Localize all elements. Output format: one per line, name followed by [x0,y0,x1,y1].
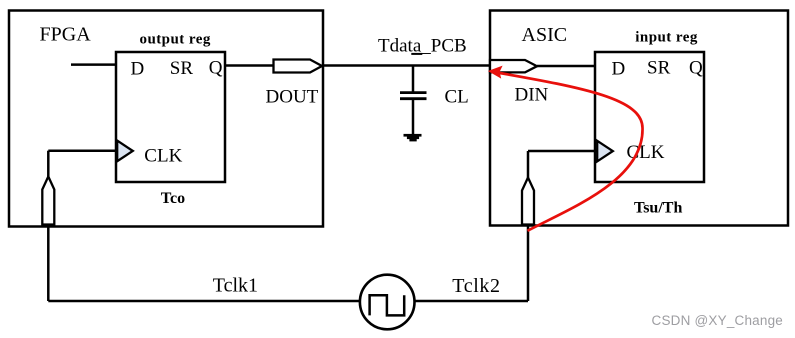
FPGA box [9,11,323,227]
svg-text:Tclk2: Tclk2 [452,275,500,297]
svg-text:D: D [612,58,626,79]
capacitor CL stem bottom [412,100,415,135]
wire ASIC clk vertical lower [527,225,530,302]
clock edge triangle U1 [117,141,133,162]
ASIC box [490,11,788,226]
svg-text:Tdata_PCB: Tdata_PCB [378,35,467,56]
wire D input stub U1 [71,63,116,66]
flip-flop U1 output reg [116,52,225,182]
wire ASIC clk vertical upper [527,151,530,178]
ground [404,134,422,142]
wire Tclk1 horizontal [48,300,359,303]
svg-text:Q: Q [209,58,223,79]
wire ASIC clk horizontal [528,150,597,153]
clock edge triangle U2 [597,141,613,162]
capacitor CL top plate [400,91,427,94]
wire DIN to D input U2 [537,65,595,68]
wire Tdata_PCB net [322,64,490,67]
svg-text:CSDN @XY_Change: CSDN @XY_Change [652,313,784,328]
capacitor CL bottom plate [400,97,427,100]
svg-text:SR: SR [647,58,671,79]
svg-text:CLK: CLK [144,145,182,166]
svg-text:Tsu/Th: Tsu/Th [634,200,682,217]
svg-text:output reg: output reg [140,31,211,47]
svg-text:DIN: DIN [515,84,549,105]
DIN pin symbol [490,60,537,72]
capacitor CL stem top [412,66,415,92]
wire FPGA clk vertical upper [47,151,50,178]
DOUT pin symbol [274,60,323,73]
svg-text:Tclk1: Tclk1 [213,275,258,297]
svg-text:FPGA: FPGA [40,24,92,46]
wire FPGA clk vertical lower [47,225,50,302]
svg-text:ASIC: ASIC [522,24,568,46]
svg-text:input reg: input reg [635,30,698,46]
flip-flop U2 input reg [595,52,704,182]
wire Q to DOUT pin [225,64,274,67]
svg-text:Q: Q [689,58,703,79]
clock source square wave [370,295,405,315]
red arrowhead [488,66,503,79]
wire Tclk2 horizontal [415,300,528,303]
svg-text:D: D [131,58,145,79]
wire FPGA clk horizontal [48,149,117,152]
svg-text:CL: CL [445,86,469,107]
svg-text:Tco: Tco [161,190,185,207]
svg-text:SR: SR [170,58,194,79]
red timing arc [497,73,643,231]
clock pin symbol ASIC [522,178,534,225]
svg-text:DOUT: DOUT [266,86,319,107]
clock pin symbol FPGA [42,177,54,225]
clock source oscillator circle [360,275,415,330]
